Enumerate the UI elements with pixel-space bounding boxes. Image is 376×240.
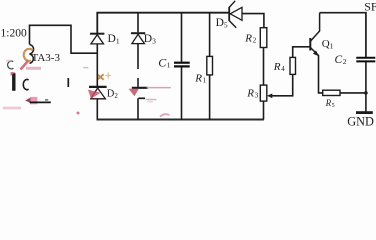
transistor Q1 emitter — [310, 48, 318, 56]
svg-text:3: 3 — [255, 91, 259, 99]
wire: wiper to R4 bottom — [272, 74, 293, 95]
svg-text:R: R — [325, 98, 332, 108]
wire: left bridge column mid segment — [96, 44, 98, 86]
svg-text:5: 5 — [332, 103, 335, 109]
watermark pink line right of D4 — [147, 87, 171, 89]
resistor R5 box — [323, 90, 340, 95]
Q1 emitter arrowhead — [313, 50, 319, 56]
watermark orange arc near TA3-3 — [24, 49, 33, 61]
watermark red triangle over D4 — [129, 89, 139, 96]
diode D3 cathode bar — [131, 32, 145, 34]
transformer winding remnant arc (glyph c) — [23, 80, 28, 90]
wire: R4 top to Q1 base — [293, 47, 310, 58]
svg-text:SF: SF — [364, 0, 376, 13]
watermark red dot — [77, 112, 80, 115]
svg-text:GND: GND — [347, 115, 374, 128]
wire: right bridge column upper segment — [137, 13, 139, 33]
wire: zener output to R2 corner — [242, 14, 264, 28]
wire: R1 column upper — [209, 13, 211, 57]
wire: R3 bottom to bottom rail — [263, 101, 265, 119]
svg-text:1:200: 1:200 — [1, 27, 27, 39]
wire: C1 column upper — [181, 13, 183, 62]
watermark orange X mark on left bridge column — [97, 74, 103, 80]
diode D1 cathode bar — [90, 33, 104, 35]
watermark pink squiggle above bottom rail — [160, 114, 170, 117]
wire: collector output rail to SF corner — [320, 13, 366, 58]
resistor R4 box — [290, 57, 296, 74]
capacitor C1 plates — [174, 62, 190, 64]
R3 wiper arrow — [267, 94, 272, 99]
wire: Q1 emitter down to R5 — [319, 55, 323, 93]
transformer primary stroke (glyph 1) — [12, 73, 15, 91]
zener D5 bent cathode wings — [229, 1, 235, 8]
watermark pink dashes below D4 — [146, 99, 157, 101]
svg-text:R: R — [246, 87, 254, 99]
potentiometer R3 box — [260, 85, 267, 101]
watermark faint orange plus — [106, 73, 112, 79]
svg-text:R: R — [273, 61, 281, 73]
zener D5 triangle — [230, 7, 242, 20]
watermark red diagonal arrow mid-left — [21, 61, 29, 70]
zener diode D5 cathode bar — [228, 7, 230, 21]
diode D1 triangle — [91, 35, 104, 44]
transformer T1 secondary top lead wire — [30, 25, 98, 53]
wire: right bridge column lower segment — [137, 98, 139, 119]
diode D4 cathode bar — [132, 87, 148, 89]
wire: R1 column lower — [209, 75, 211, 120]
wire: R5 to ground column — [340, 92, 366, 94]
wire: C1 column lower — [181, 68, 183, 120]
transistor Q1 collector — [310, 13, 319, 42]
capacitor C2 plates — [356, 57, 375, 59]
diode D3 triangle — [132, 34, 145, 43]
resistor R1 box — [207, 56, 213, 75]
diode D2 triangle — [91, 88, 106, 99]
watermark small dark dash — [45, 99, 48, 101]
svg-text:TA3-3: TA3-3 — [32, 52, 61, 64]
svg-text:2: 2 — [253, 37, 257, 45]
svg-text:C: C — [335, 54, 343, 66]
watermark pink strip under TA3-3 — [26, 67, 41, 70]
svg-text:4: 4 — [281, 65, 285, 73]
watermark pink underline bottom-left — [3, 107, 21, 110]
watermark dark arc left — [8, 61, 14, 69]
svg-text:1: 1 — [203, 76, 207, 84]
diode D4 base dash remnant — [138, 97, 145, 99]
transistor Q1 base bar — [309, 38, 311, 51]
wire: C2 bottom to ground — [365, 62, 367, 111]
transformer bottom lead remnant dash — [67, 78, 69, 87]
wire: bottom rail — [97, 118, 264, 120]
wire: R2 to R3 column — [263, 48, 265, 86]
watermark red arrow bottom-left — [30, 97, 37, 104]
svg-text:1: 1 — [167, 60, 171, 69]
watermark black strikethrough line — [30, 101, 51, 103]
watermark red blob over D2 triangle — [88, 90, 101, 99]
watermark gray dash left of bridge — [83, 67, 88, 69]
resistor R2 box — [260, 28, 267, 48]
svg-text:R: R — [194, 72, 202, 84]
watermark pink tip on primary stroke — [11, 72, 16, 76]
junction dot R5/C2/GND — [364, 91, 368, 95]
wire: top rail (bridge + output to zener) — [97, 13, 229, 33]
diode D2 cathode bar — [89, 86, 107, 88]
svg-text:R: R — [244, 33, 252, 45]
ground symbol bar — [356, 111, 373, 114]
transformer T1 winding arcs — [30, 45, 34, 64]
svg-text:2: 2 — [343, 57, 347, 66]
wire: left bridge column lower segment — [96, 99, 98, 120]
wire: right bridge column mid segment (with scan gap) — [137, 44, 139, 69]
